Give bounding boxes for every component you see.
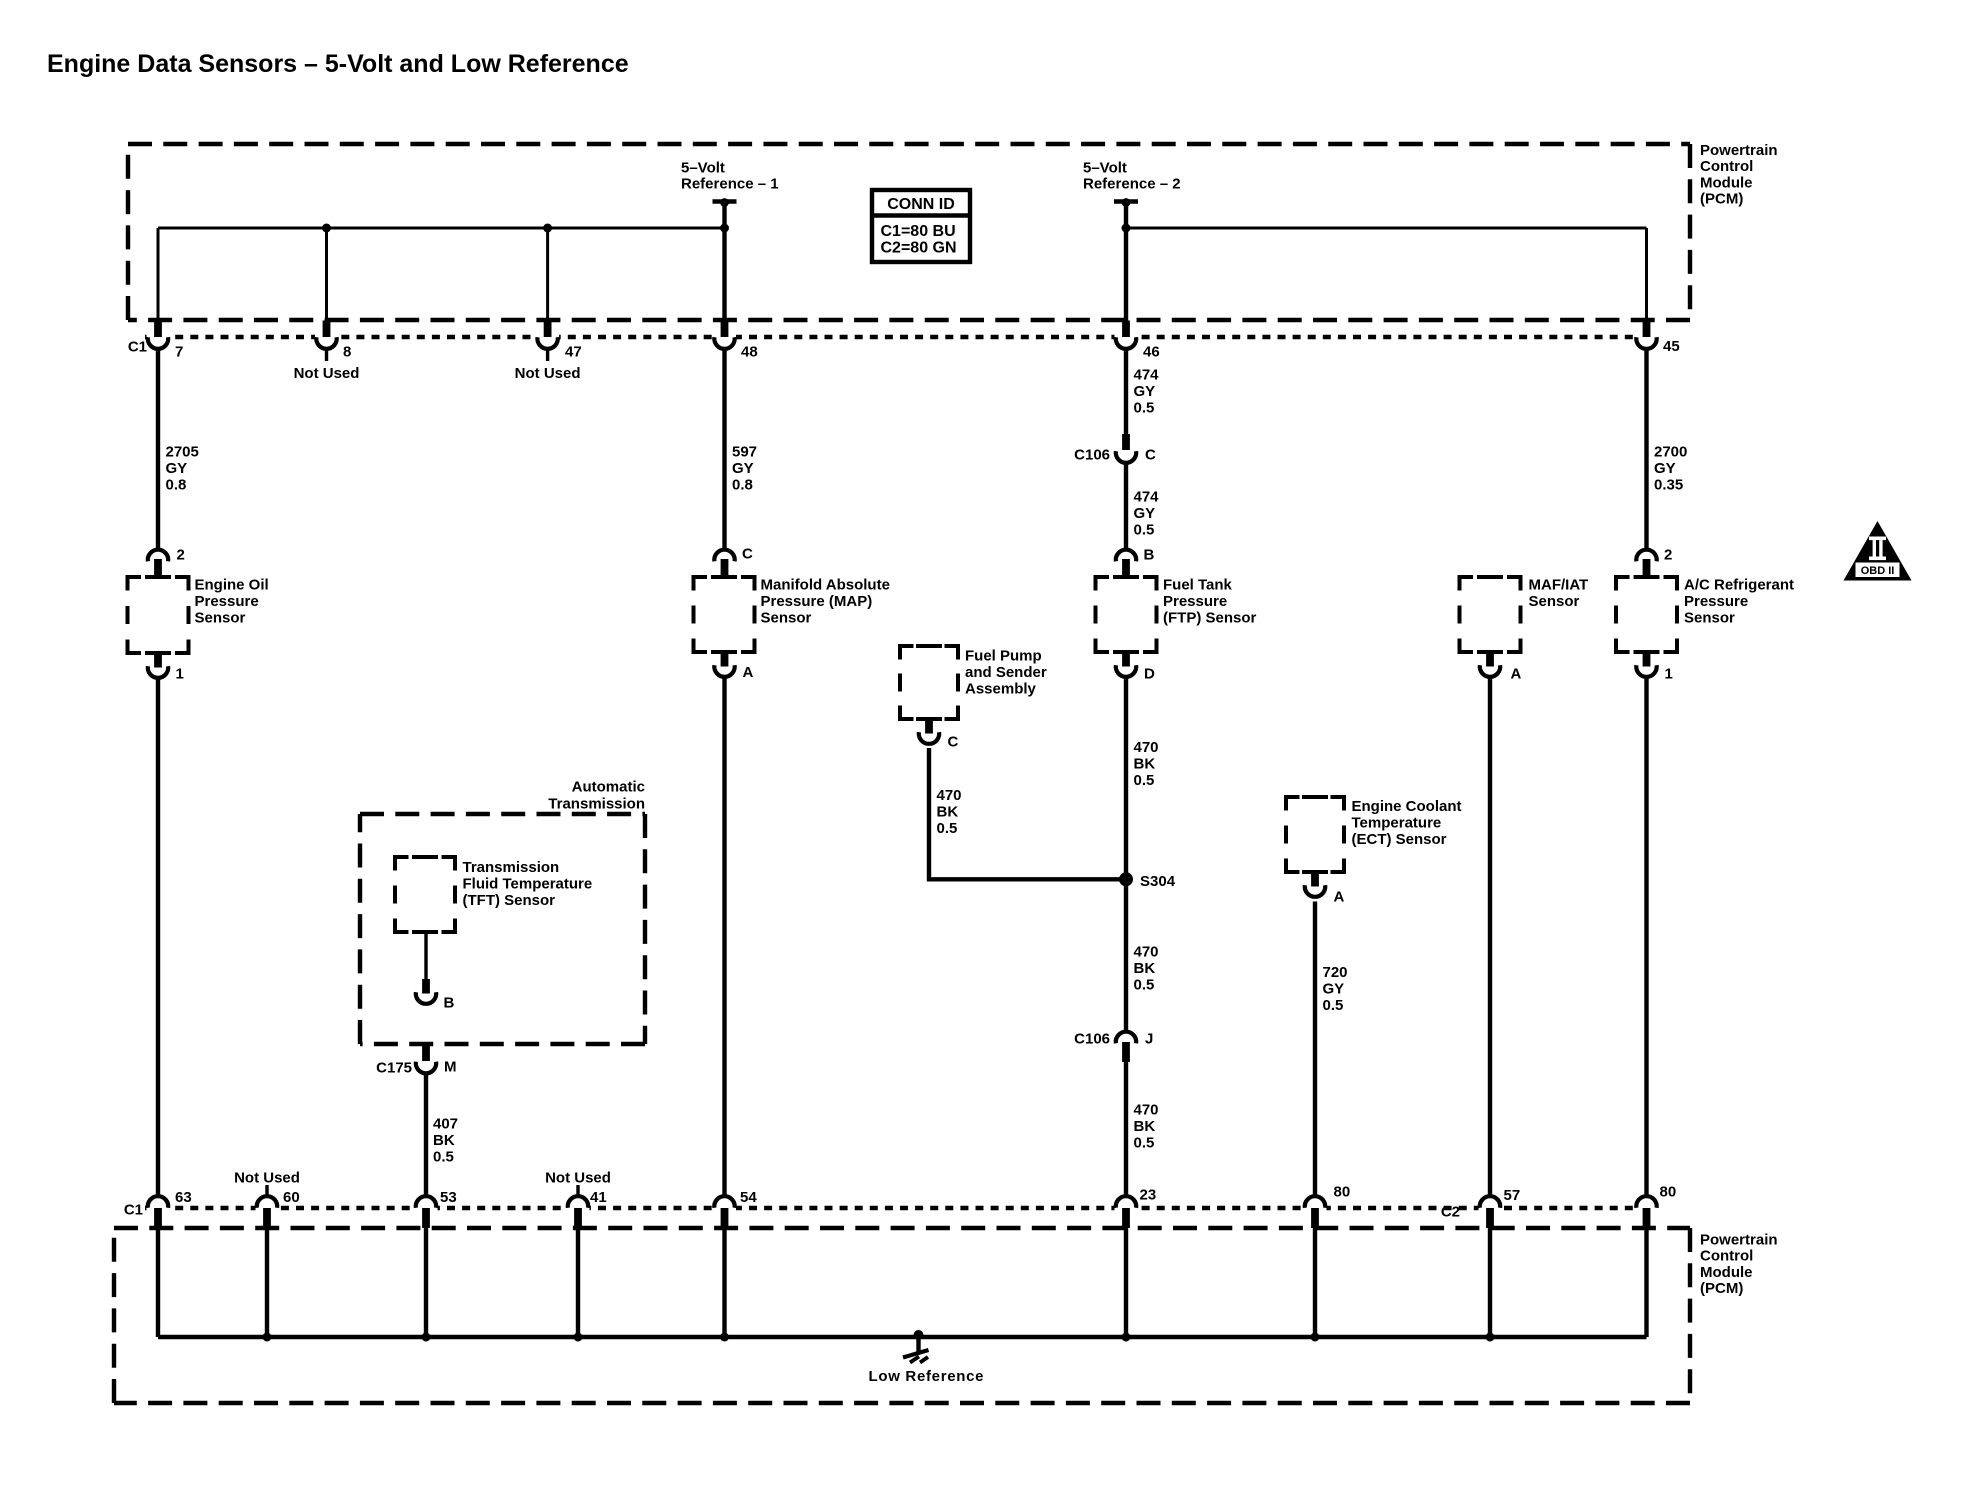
svg-text:B: B [1144, 547, 1155, 564]
splice S304 [1119, 872, 1133, 886]
svg-text:Pressure (MAP): Pressure (MAP) [761, 593, 873, 610]
MAF/IAT sensor pin A [1486, 652, 1494, 667]
svg-text:Engine Oil: Engine Oil [195, 577, 269, 594]
wire: pin drop to low ref bus at x=267 [265, 1228, 269, 1337]
PCM pin 46 [1122, 321, 1130, 338]
wire: bus drop to pin 47 [546, 228, 549, 322]
PCM module dashed box (bottom) [114, 1226, 1690, 1230]
svg-text:2700: 2700 [1654, 444, 1687, 461]
svg-text:Module: Module [1700, 1264, 1753, 1281]
svg-text:48: 48 [741, 344, 758, 361]
svg-text:0.35: 0.35 [1654, 476, 1683, 493]
connector C106 pin J [1116, 1032, 1136, 1044]
wire stub: pin 41 not used [576, 1185, 579, 1196]
svg-text:GY: GY [1323, 980, 1345, 997]
wire 720 GY 0.5 [1313, 902, 1317, 1197]
svg-text:Transmission: Transmission [463, 859, 560, 876]
svg-text:C: C [948, 734, 959, 751]
svg-text:BK: BK [1134, 755, 1156, 772]
svg-text:A: A [1511, 666, 1522, 683]
wire: TFT sensor to pin B [424, 932, 427, 979]
svg-text:MAF/IAT: MAF/IAT [1529, 577, 1589, 594]
svg-text:Temperature: Temperature [1352, 814, 1442, 831]
wire: 5V ref 2 bus [1126, 227, 1647, 230]
svg-text:GY: GY [1134, 383, 1156, 400]
svg-text:C: C [1145, 447, 1156, 464]
wire 470 BK 0.5 (FTP D to C106 J via S304) [1124, 676, 1128, 1031]
svg-text:C106: C106 [1074, 447, 1110, 464]
svg-text:BK: BK [937, 803, 959, 820]
svg-text:Module: Module [1700, 174, 1753, 191]
svg-text:(FTP) Sensor: (FTP) Sensor [1163, 609, 1257, 626]
PCM pin 48 [721, 321, 729, 338]
junction: low ref bus at x=1490 [1486, 1333, 1495, 1342]
svg-text:(ECT) Sensor: (ECT) Sensor [1352, 831, 1447, 848]
svg-text:41: 41 [590, 1189, 607, 1206]
svg-text:Reference – 1: Reference – 1 [681, 176, 779, 193]
svg-text:0.8: 0.8 [732, 476, 753, 493]
wire 470 BK 0.5 (C106 J to pin 23) [1124, 1062, 1128, 1196]
svg-text:C2=80 GN: C2=80 GN [881, 240, 957, 257]
svg-text:(PCM): (PCM) [1700, 1280, 1743, 1297]
svg-text:A/C Refrigerant: A/C Refrigerant [1684, 577, 1794, 594]
svg-text:B: B [444, 995, 455, 1012]
svg-text:A: A [1334, 889, 1345, 906]
svg-text:54: 54 [740, 1189, 757, 1206]
svg-text:C2: C2 [1441, 1204, 1460, 1221]
CONN ID table [872, 190, 970, 262]
svg-text:Automatic: Automatic [572, 779, 645, 796]
svg-text:Fluid Temperature: Fluid Temperature [463, 875, 593, 892]
wire: pin drop to low ref bus at x=1646.5 [1644, 1228, 1648, 1337]
svg-text:60: 60 [283, 1189, 300, 1206]
svg-text:C: C [742, 546, 753, 563]
svg-text:5–Volt: 5–Volt [681, 160, 725, 177]
svg-text:Manifold Absolute: Manifold Absolute [761, 577, 890, 594]
svg-text:Not Used: Not Used [234, 1170, 300, 1187]
svg-text:D: D [1144, 666, 1155, 683]
junction: low ref bus at x=426 [422, 1333, 431, 1342]
svg-text:0.5: 0.5 [1134, 976, 1155, 993]
svg-text:0.5: 0.5 [1323, 997, 1344, 1014]
wire: 5V ref 2 stem to pin 46 [1124, 204, 1128, 322]
svg-text:470: 470 [1134, 739, 1159, 756]
svg-text:23: 23 [1140, 1187, 1157, 1204]
svg-text:46: 46 [1143, 344, 1160, 361]
Engine Oil Pressure Sensor box [128, 577, 142, 591]
svg-text:Not Used: Not Used [515, 365, 581, 382]
svg-text:63: 63 [175, 1189, 192, 1206]
svg-text:J: J [1145, 1031, 1153, 1048]
svg-text:Not Used: Not Used [545, 1170, 611, 1187]
ECT sensor pin A [1311, 872, 1319, 887]
svg-text:1: 1 [176, 666, 184, 683]
svg-text:Pressure: Pressure [195, 593, 259, 610]
PCM pin 45 [1643, 321, 1651, 338]
svg-text:45: 45 [1663, 338, 1680, 355]
PCM pin 80 (C2) [1636, 1196, 1656, 1208]
wire stub: pin 60 not used [265, 1185, 268, 1196]
MAF/IAT Sensor box [1460, 577, 1474, 591]
svg-text:Control: Control [1700, 1248, 1753, 1265]
wire: pin drop to low ref bus at x=158 [156, 1228, 160, 1337]
junction: low ref bus at x=724.5 [720, 1333, 729, 1342]
svg-text:Control: Control [1700, 158, 1753, 175]
wire 474 GY 0.5 upper [1124, 348, 1128, 435]
wire: pin drop to low ref bus at x=426 [424, 1228, 428, 1337]
junction: bus / 5V ref 2 [1122, 224, 1131, 233]
svg-text:CONN ID: CONN ID [887, 196, 955, 213]
mask: dotted-line gaps at top connector pins [147, 333, 170, 341]
wire 2705 GY 0.8 [156, 348, 160, 548]
svg-text:C1=80 BU: C1=80 BU [881, 223, 956, 240]
OBD II triangle symbol [1844, 521, 1912, 581]
svg-text:Fuel Pump: Fuel Pump [965, 648, 1042, 665]
svg-text:BK: BK [433, 1132, 455, 1149]
Engine Oil sensor pin 2 [148, 550, 168, 562]
svg-text:474: 474 [1134, 367, 1160, 384]
junction: bus / 5V ref 1 [720, 224, 729, 233]
PCM pin 41 (Not Used) [568, 1196, 588, 1208]
svg-text:Powertrain: Powertrain [1700, 1232, 1778, 1249]
svg-text:2705: 2705 [166, 444, 199, 461]
wire 552 BK 0.5 [1488, 676, 1492, 1196]
svg-text:GY: GY [166, 460, 188, 477]
wire stub: pin 47 not used [546, 348, 549, 361]
svg-text:Not Used: Not Used [294, 365, 360, 382]
wire: 5V ref 1 bus [158, 227, 725, 230]
svg-text:C106: C106 [1074, 1031, 1110, 1048]
svg-text:0.5: 0.5 [1134, 521, 1155, 538]
C1 connector dotted line (top) [145, 335, 1649, 340]
svg-text:M: M [444, 1059, 457, 1076]
junction: low ref bus at x=1315 [1311, 1333, 1320, 1342]
ECT Sensor box [1286, 797, 1300, 811]
wire: pin drop to low ref bus at x=1315 [1313, 1228, 1317, 1337]
svg-text:A: A [743, 664, 754, 681]
TFT Sensor box [395, 857, 409, 871]
svg-text:(PCM): (PCM) [1700, 191, 1743, 208]
svg-text:53: 53 [440, 1189, 457, 1206]
A/C sensor pin 1 [1643, 652, 1651, 667]
PCM pin 60 (Not Used) [257, 1196, 277, 1208]
svg-text:720: 720 [1323, 964, 1348, 981]
wire 2700 GY 0.35 [1644, 348, 1648, 548]
wire: bus drop to pin 7 [157, 228, 160, 322]
svg-text:C1: C1 [128, 339, 147, 356]
wire: 5V ref 1 stem to pin 48 [722, 204, 726, 322]
svg-text:474: 474 [1134, 489, 1160, 506]
svg-text:2: 2 [177, 547, 185, 564]
A/C sensor pin 2 [1636, 550, 1656, 562]
svg-text:0.5: 0.5 [1134, 399, 1155, 416]
svg-text:1: 1 [1665, 666, 1673, 683]
svg-text:Transmission: Transmission [548, 796, 645, 813]
wire 407 BK 0.5 [424, 1074, 428, 1197]
wire 474 GY 0.5 lower [1124, 463, 1128, 548]
wire 2755 BK 0.8 [156, 676, 160, 1196]
MAP sensor pin A [721, 652, 729, 667]
PCM pin 54 [714, 1196, 734, 1208]
wire: bus drop to pin 8 [325, 228, 328, 322]
svg-text:57: 57 [1504, 1187, 1521, 1204]
5-Volt Reference - 1 power symbol [713, 199, 737, 203]
svg-text:5–Volt: 5–Volt [1083, 160, 1127, 177]
svg-text:Pressure: Pressure [1684, 593, 1748, 610]
svg-text:BK: BK [1134, 1118, 1156, 1135]
A/C Refrigerant Pressure Sensor box [1616, 577, 1630, 591]
wire: pin drop to low ref bus at x=1490 [1488, 1228, 1492, 1337]
connector C175 pin M [422, 1044, 430, 1061]
PCM pin 8 (Not Used) [323, 321, 331, 338]
wire: pin drop to low ref bus at x=1126 [1124, 1228, 1128, 1337]
PCM pin 53 [416, 1196, 436, 1208]
svg-text:0.5: 0.5 [1134, 1134, 1155, 1151]
mask: dotted-line gaps at bottom connector pins [147, 1203, 170, 1211]
svg-text:(TFT) Sensor: (TFT) Sensor [463, 892, 556, 909]
FTP Sensor box [1096, 577, 1110, 591]
svg-text:and Sender: and Sender [965, 664, 1047, 681]
svg-text:407: 407 [433, 1116, 458, 1133]
svg-text:OBD II: OBD II [1861, 565, 1895, 577]
svg-text:C175: C175 [376, 1060, 412, 1077]
svg-text:470: 470 [1134, 944, 1159, 961]
junction: low ref bus / ground [914, 1330, 924, 1340]
Fuel Pump and Sender Assembly box [900, 646, 914, 660]
svg-text:2: 2 [1664, 547, 1672, 564]
PCM pin 47 (Not Used) [544, 321, 552, 338]
Fuel Pump pin C [925, 719, 933, 734]
wire: pin drop to low ref bus at x=578 [576, 1228, 580, 1337]
TFT sensor pin B [422, 979, 430, 994]
svg-text:7: 7 [175, 344, 183, 361]
Engine Oil sensor pin 1 [154, 653, 162, 668]
svg-text:C1: C1 [124, 1202, 143, 1219]
svg-text:Reference – 2: Reference – 2 [1083, 176, 1181, 193]
svg-text:GY: GY [1134, 505, 1156, 522]
PCM pin 57 [1480, 1196, 1500, 1208]
junction: low ref bus at x=578 [574, 1333, 583, 1342]
MAP sensor pin C [714, 550, 734, 562]
ground stem [916, 1337, 920, 1353]
svg-text:80: 80 [1334, 1184, 1351, 1201]
wire 470 BK 0.5 (fuel pump C to S304) [929, 748, 1126, 879]
svg-text:0.8: 0.8 [166, 476, 187, 493]
ground hatch [903, 1350, 929, 1358]
PCM pin 63 [148, 1196, 168, 1208]
svg-text:470: 470 [937, 787, 962, 804]
svg-text:Engine Coolant: Engine Coolant [1352, 798, 1462, 815]
svg-text:0.5: 0.5 [433, 1148, 454, 1165]
svg-text:Powertrain: Powertrain [1700, 142, 1778, 159]
svg-text:Engine Data Sensors – 5-Volt a: Engine Data Sensors – 5-Volt and Low Ref… [47, 50, 629, 78]
wire 469 OG/BK 0.8 [722, 676, 726, 1196]
Automatic Transmission dashed box [360, 812, 645, 816]
5-Volt Reference - 2 power symbol [1114, 199, 1138, 203]
svg-text:0.5: 0.5 [1134, 772, 1155, 789]
FTP sensor pin B [1116, 550, 1136, 562]
wire: pin drop to low ref bus at x=724.5 [722, 1228, 726, 1337]
svg-text:Sensor: Sensor [1529, 593, 1580, 610]
PCM module dashed box (top) [128, 142, 1690, 146]
svg-text:Sensor: Sensor [195, 609, 246, 626]
junction: low ref bus at x=267 [263, 1333, 272, 1342]
wire: bus drop to pin 45 [1645, 228, 1648, 322]
svg-text:BK: BK [1134, 960, 1156, 977]
C1/C2 connector dotted line (bottom) [145, 1206, 1649, 1211]
svg-text:47: 47 [565, 344, 582, 361]
MAP Sensor box [694, 577, 708, 591]
svg-text:GY: GY [732, 460, 754, 477]
svg-text:S304: S304 [1140, 873, 1176, 890]
wire stub: pin 8 not used [325, 348, 328, 361]
connector C106 pin C [1122, 434, 1130, 450]
FTP sensor pin D [1122, 652, 1130, 667]
PCM pin 80 (C1) [1305, 1196, 1325, 1208]
svg-text:Sensor: Sensor [1684, 609, 1735, 626]
svg-text:Pressure: Pressure [1163, 593, 1227, 610]
svg-text:597: 597 [732, 444, 757, 461]
svg-text:8: 8 [343, 344, 351, 361]
svg-text:GY: GY [1654, 460, 1676, 477]
wire 597 GY 0.8 [722, 348, 726, 548]
junction: bus / pin 8 drop [322, 224, 331, 233]
svg-text:Sensor: Sensor [761, 609, 812, 626]
svg-text:470: 470 [1134, 1102, 1159, 1119]
svg-text:Low Reference: Low Reference [869, 1368, 984, 1385]
svg-text:80: 80 [1660, 1184, 1677, 1201]
PCM pin 7 [154, 321, 162, 338]
svg-text:Fuel Tank: Fuel Tank [1163, 577, 1233, 594]
PCM pin 23 [1116, 1196, 1136, 1208]
svg-text:0.5: 0.5 [937, 820, 958, 837]
wire: low reference bus [158, 1335, 1647, 1340]
svg-text:Assembly: Assembly [965, 680, 1037, 697]
wire 2751 BK 0.35 [1644, 676, 1648, 1196]
junction: low ref bus at x=1126 [1122, 1333, 1131, 1342]
junction: bus / pin 47 drop [543, 224, 552, 233]
